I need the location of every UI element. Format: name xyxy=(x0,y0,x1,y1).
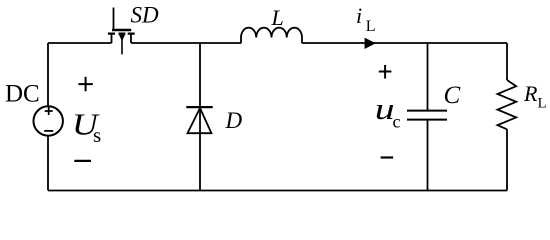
svg-text:SD: SD xyxy=(131,3,160,28)
svg-text:i: i xyxy=(356,3,362,28)
svg-text:s: s xyxy=(93,123,101,147)
svg-text:L: L xyxy=(366,18,376,35)
svg-text:D: D xyxy=(225,108,243,133)
svg-text:C: C xyxy=(444,82,461,109)
svg-text:L: L xyxy=(271,5,284,30)
svg-text:c: c xyxy=(393,112,401,132)
svg-text:R: R xyxy=(523,81,538,106)
svg-text:L: L xyxy=(538,95,547,111)
svg-text:DC: DC xyxy=(5,81,40,108)
